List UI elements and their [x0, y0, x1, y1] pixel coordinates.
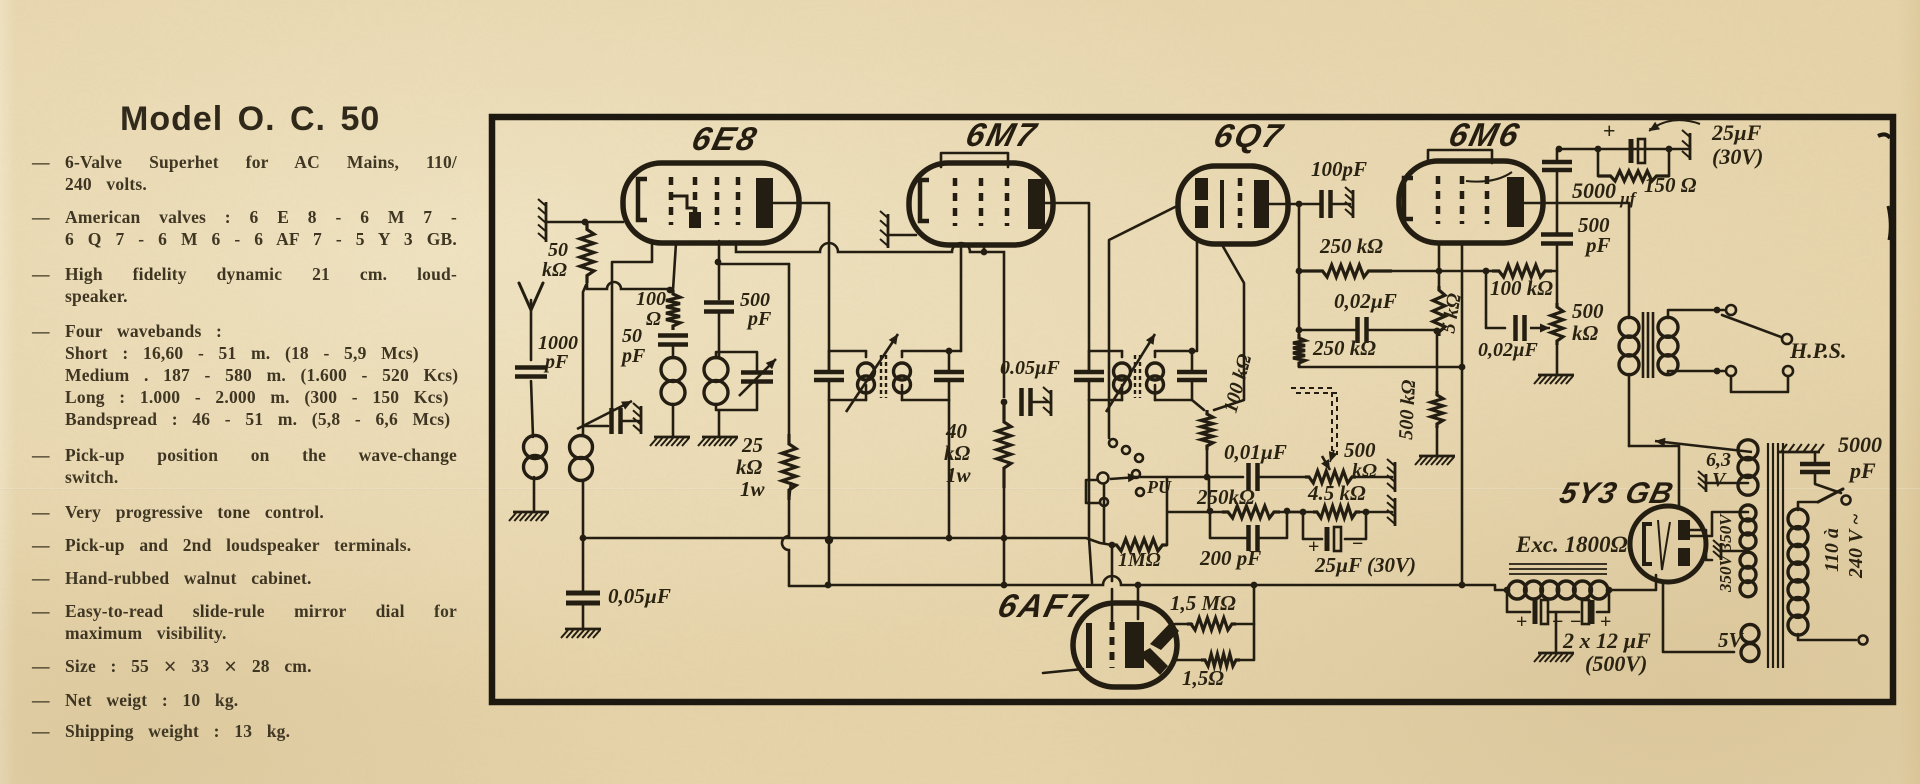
- mains switch: [1818, 489, 1843, 502]
- svg-text:0,01µF: 0,01µF: [1224, 440, 1287, 464]
- capacitor 0.01uF: [1249, 463, 1258, 491]
- wire 50k to tank: [583, 285, 586, 436]
- IF2 secondary capacitor: [1177, 372, 1207, 380]
- svg-text:pF: pF: [620, 345, 646, 367]
- wire 5k to 500k: [1436, 331, 1439, 391]
- electrolytic 25uF top: [1629, 139, 1634, 163]
- svg-text:6E8: 6E8: [688, 121, 762, 157]
- svg-text:6AF7: 6AF7: [994, 588, 1092, 624]
- wire 25k bottom hop to bus: [782, 482, 791, 586]
- wire bus to choke: [1495, 585, 1507, 590]
- node mb4: [1001, 582, 1008, 589]
- svg-text:5V: 5V: [1718, 628, 1745, 652]
- wire 5000 stem: [1814, 452, 1817, 461]
- node 250k h: [1296, 268, 1303, 275]
- capacitor 0.02uF m6: [1516, 315, 1525, 341]
- node avc3: [825, 536, 833, 544]
- switch frame: [1086, 480, 1099, 503]
- terminal HPS 2: [1782, 334, 1792, 344]
- chassis wall det: [1394, 498, 1397, 526]
- wire 500pF to coil2: [718, 311, 721, 358]
- wire IF2 left down to bus: [1089, 400, 1092, 583]
- wire 350 tap: [1721, 550, 1748, 553]
- chassis wall 100pF: [1352, 190, 1355, 218]
- node mb2: [1135, 582, 1142, 589]
- electrolytic C2 12uF: [1590, 600, 1595, 624]
- svg-text:kΩ: kΩ: [1572, 321, 1599, 345]
- wire 512 rail: [1168, 511, 1224, 514]
- resistor 250k v: [1293, 334, 1305, 367]
- choke core: [1509, 564, 1607, 574]
- wire 500k to gnd: [1436, 428, 1439, 455]
- resistor 40k 1W: [997, 402, 1011, 488]
- terminal HPS 3: [1726, 366, 1736, 376]
- wire IF1 right down to AVC: [948, 400, 951, 538]
- wire 6M7 anode to IF2: [1045, 203, 1089, 372]
- rectifier 5Y3GB: [1630, 506, 1706, 582]
- svg-text:100pF: 100pF: [1311, 157, 1367, 181]
- node heater-left: [582, 219, 589, 226]
- wire IF2 sec top to 6Q7: [1192, 242, 1197, 351]
- tone pot 500k: [1551, 303, 1563, 345]
- pentode tube 6M7: [909, 163, 1053, 245]
- ink mark right border a: [1878, 134, 1890, 138]
- svg-text:6M6: 6M6: [1445, 117, 1524, 153]
- svg-text:kΩ: kΩ: [542, 259, 567, 281]
- svg-text:5Y3 GB: 5Y3 GB: [1556, 476, 1677, 509]
- capacitor 0.05uF avc: [566, 593, 600, 603]
- wire 6M6 cath down: [1461, 244, 1464, 585]
- capacitor 0.02uF q7: [1358, 317, 1367, 343]
- wire 367 rail: [1299, 366, 1462, 369]
- filter choke: [1508, 581, 1526, 599]
- wire primary bottom: [1798, 634, 1856, 640]
- wire OT bottom to 5Y3: [1629, 446, 1679, 506]
- wire choke R to 5Y3: [1609, 575, 1656, 590]
- IF2 frame right: [1155, 350, 1192, 353]
- svg-text:1w: 1w: [946, 463, 972, 487]
- svg-text:5000: 5000: [1572, 178, 1616, 203]
- svg-text:4.5 kΩ: 4.5 kΩ: [1307, 481, 1366, 505]
- node avc4: [946, 535, 953, 542]
- node avc5: [1001, 535, 1008, 542]
- wire 0.02 left: [1299, 329, 1357, 332]
- resistor 150: [1598, 171, 1669, 181]
- wire osc tank top: [716, 352, 757, 372]
- top line: [1559, 148, 1690, 151]
- electrolytic C1 12uF: [1533, 600, 1538, 624]
- wire 40k to bus: [1003, 488, 1006, 585]
- wire 1.5 right: [1240, 624, 1254, 660]
- node avc1: [580, 535, 587, 542]
- wire 0.01 rail: [1134, 476, 1243, 479]
- switch contact 2: [1122, 446, 1130, 454]
- ground filter: [1538, 652, 1574, 655]
- output transformer primary: [1619, 317, 1639, 337]
- resistor 1M: [1112, 539, 1167, 551]
- node 02 tap: [1483, 268, 1490, 275]
- AVC bus: [583, 538, 1112, 545]
- svg-text:Ω: Ω: [646, 308, 661, 330]
- duo-diode-triode 6Q7: [1178, 166, 1288, 244]
- wire ant coil to ground: [533, 477, 536, 510]
- chassis wall trimmer: [640, 406, 643, 434]
- IF2 primary coil: [1114, 363, 1131, 380]
- wire caps mid gnd: [1555, 612, 1558, 652]
- wire OT sec top: [1668, 310, 1724, 318]
- capacitor 500pF m6: [1541, 235, 1573, 244]
- node cath bus: [1459, 582, 1466, 589]
- chassis wall 0.05uF: [1050, 390, 1053, 416]
- node q7 330: [1296, 327, 1303, 334]
- wire 6M6 grid down: [1438, 244, 1441, 286]
- node top3: [1666, 146, 1673, 153]
- 6M6 grid cap bracket: [1428, 150, 1492, 163]
- node 512a: [1207, 508, 1214, 515]
- 6M7 grid cap bracket: [941, 153, 1008, 167]
- winding 5V: [1741, 625, 1759, 643]
- svg-text:6,3: 6,3: [1706, 449, 1731, 471]
- resistor 250k coupling: [1299, 265, 1392, 277]
- node det: [1300, 509, 1307, 516]
- wire HPS jog: [1731, 376, 1788, 392]
- wire 100pF leads: [1299, 203, 1321, 206]
- svg-text:500: 500: [1344, 438, 1376, 462]
- chassis wall AF: [1394, 462, 1397, 492]
- switch contact 4: [1132, 470, 1140, 478]
- ceiling ground 5000pF: [1778, 451, 1820, 454]
- ground antenna coil: [513, 511, 549, 514]
- svg-text:0.05µF: 0.05µF: [1000, 357, 1061, 379]
- wire 0.02 right: [1367, 329, 1437, 332]
- node 1M junction: [1109, 542, 1116, 549]
- tuning indicator 6AF7: [1073, 603, 1177, 687]
- node IF2 sec top: [1189, 348, 1196, 355]
- wire 5Y3 filament down: [1663, 582, 1734, 652]
- wire grid3 6E8 down: [718, 241, 721, 299]
- node sec bottom: [1714, 368, 1721, 375]
- svg-text:kΩ: kΩ: [944, 441, 971, 465]
- resistor 250k det: [1222, 506, 1280, 518]
- svg-text:250kΩ: 250kΩ: [1196, 485, 1255, 509]
- wire 477 to 512: [1208, 477, 1211, 512]
- wire antenna cap to coil: [531, 381, 533, 437]
- switch contact 1: [1109, 439, 1117, 447]
- schematic frame border: [492, 117, 1893, 702]
- capacitor 100pF: [1322, 190, 1331, 218]
- svg-text:250 kΩ: 250 kΩ: [1312, 336, 1376, 360]
- wire HPS diag: [1722, 315, 1781, 337]
- svg-text:kΩ: kΩ: [736, 455, 763, 479]
- svg-text:500: 500: [1572, 299, 1604, 323]
- IF1 secondary coil: [894, 363, 911, 380]
- wire primary top: [1798, 502, 1818, 510]
- switch wiper arrow: [1110, 477, 1138, 479]
- terminal HPS 1: [1726, 305, 1736, 315]
- wire 6Q7 anode down: [1298, 204, 1301, 334]
- resistor 5k: [1433, 286, 1445, 336]
- wire IF1 left down to bus: [828, 400, 831, 585]
- svg-text:25: 25: [741, 433, 763, 457]
- AF pot 500k: [1305, 471, 1356, 483]
- wire 5000 to topline: [1556, 149, 1559, 162]
- ground avc: [565, 628, 601, 631]
- wire switch pole down: [1103, 484, 1106, 543]
- wire 6Q7 anode right: [1269, 203, 1299, 206]
- svg-text:V: V: [1712, 469, 1727, 491]
- loop 200pF: [1210, 512, 1248, 538]
- svg-text:0,05µF: 0,05µF: [608, 584, 671, 608]
- wire osc coil bottom to AVC bus: [582, 480, 585, 538]
- loop caps: [1507, 590, 1530, 612]
- resistor 1.5M: [1187, 618, 1236, 630]
- svg-text:kΩ: kΩ: [1352, 460, 1377, 482]
- svg-text:40: 40: [945, 419, 968, 443]
- wire trimmer left: [583, 425, 608, 428]
- chassis wall top-left: [545, 202, 548, 242]
- wire pot bottom: [1206, 450, 1209, 477]
- svg-text:1,5 MΩ: 1,5 MΩ: [1170, 591, 1236, 615]
- node 6M7 cathode: [1001, 399, 1008, 406]
- IF1 frame left: [829, 350, 866, 353]
- wire tone to gnd: [1556, 345, 1559, 374]
- wire grid1 lead: [673, 243, 676, 290]
- resistor 25k 1W: [782, 434, 796, 500]
- winding 6.3V: [1738, 440, 1758, 460]
- wire 0.01 to pot: [1258, 476, 1309, 479]
- wire 0.05uF to wall: [1031, 401, 1048, 404]
- capacitor 1000pF: [515, 368, 547, 377]
- wire osc tank to ground: [718, 410, 721, 436]
- wire coil1 to ground: [672, 404, 675, 436]
- switch contact 6: [1100, 498, 1108, 506]
- wire 50k bottom to grid node: [587, 282, 670, 289]
- transformer core: [1768, 443, 1783, 668]
- volume pot resistor 100k: [1201, 410, 1213, 450]
- svg-text:240 V ~: 240 V ~: [1845, 514, 1867, 579]
- wire 6.3 tap: [1706, 482, 1748, 485]
- node 477 left: [1204, 474, 1211, 481]
- ground 6.3V: [1705, 474, 1708, 492]
- wire 6Q7 grid kink: [1214, 243, 1244, 410]
- wire osc tank bottom: [716, 382, 757, 410]
- main bus: [828, 576, 1495, 585]
- node top1: [1556, 146, 1563, 153]
- chassis wall 25uF: [1689, 133, 1692, 160]
- svg-text:100 kΩ: 100 kΩ: [1490, 276, 1553, 300]
- capacitor 5000 top: [1542, 162, 1572, 170]
- node 6Q7 anode: [1296, 201, 1303, 208]
- antenna coil: [524, 436, 547, 459]
- capacitor 200pF: [1249, 525, 1258, 551]
- dashed feedback path: [1291, 388, 1332, 455]
- antenna stem: [530, 300, 533, 360]
- tuned coil 1: [661, 358, 685, 382]
- switch pole: [1098, 473, 1109, 484]
- svg-text:H.P.S.: H.P.S.: [1789, 338, 1846, 363]
- wire OT down: [1628, 203, 1631, 318]
- node grid1 top: [667, 287, 674, 294]
- wire 6Q7 grid to switch: [1109, 207, 1175, 438]
- 6M6 grid pointer: [1466, 172, 1512, 182]
- wire OT primary bottom: [1628, 374, 1631, 446]
- node choke R: [1606, 587, 1613, 594]
- resistor 100ohm: [666, 290, 680, 330]
- svg-text:110 à: 110 à: [1821, 528, 1843, 572]
- wire 6AF7 anode feed: [1137, 585, 1140, 619]
- svg-text:−: −: [1552, 611, 1563, 633]
- wire det jog: [1287, 511, 1313, 514]
- wire 02 tap down: [1486, 271, 1505, 328]
- node 512b: [1284, 508, 1291, 515]
- curved arrow 25uF: [1650, 120, 1700, 130]
- svg-text:0,02µF: 0,02µF: [1478, 339, 1539, 361]
- wire 50pF to coil: [672, 344, 675, 358]
- osc coil 2: [704, 358, 728, 382]
- resistor 50k: [580, 222, 594, 283]
- node IF1 sec top: [946, 348, 953, 355]
- svg-text:pF: pF: [746, 308, 772, 330]
- output transformer core: [1643, 312, 1653, 378]
- resistor 4.5k: [1313, 506, 1360, 518]
- node 0.02 right: [1434, 328, 1441, 335]
- svg-text:2 x 12 µF: 2 x 12 µF: [1562, 628, 1651, 653]
- svg-text:5000: 5000: [1838, 432, 1882, 457]
- svg-text:6M7: 6M7: [962, 117, 1041, 153]
- IF2 tuning arrow: [1106, 334, 1155, 412]
- node det2: [1363, 509, 1370, 516]
- heater arrow: [1655, 441, 1752, 452]
- svg-text:pF: pF: [1584, 233, 1611, 257]
- svg-text:150 Ω: 150 Ω: [1644, 173, 1697, 197]
- wire heater 6E8 left: [546, 221, 623, 224]
- wire IF2 sec bottom diag: [1192, 400, 1204, 410]
- switch contact 5: [1136, 488, 1144, 496]
- IF2 core: [1135, 355, 1140, 398]
- node osc grid: [715, 259, 722, 266]
- resistor 1.5ohm: [1201, 654, 1240, 666]
- resistor 500k v: [1431, 391, 1443, 428]
- winding 350V b: [1740, 552, 1756, 568]
- svg-text:+: +: [1516, 611, 1527, 633]
- svg-text:Exc. 1800Ω: Exc. 1800Ω: [1515, 532, 1628, 557]
- wire OT sec bottom: [1668, 371, 1724, 374]
- electrolytic 25uF det: [1325, 527, 1330, 551]
- terminal mains 2: [1859, 636, 1868, 645]
- winding 350V a: [1740, 505, 1756, 521]
- antenna: [519, 283, 543, 310]
- wire IF1 sec to 6M7 grid: [960, 247, 963, 351]
- IF1 core: [881, 355, 886, 398]
- IF1 primary coil: [858, 363, 875, 380]
- wire 6M7 cathode stub: [983, 247, 986, 252]
- svg-text:1w: 1w: [740, 477, 766, 501]
- triode-hexode tube 6E8: [623, 163, 799, 243]
- switch contact 3: [1135, 454, 1143, 462]
- IF1 tuning arrow: [846, 334, 898, 412]
- resistor 100k m6: [1492, 265, 1552, 277]
- cathode rail 6E8-6M7: [736, 243, 1004, 398]
- IF1 frame right: [902, 350, 949, 353]
- trimmer capacitor osc: [612, 408, 621, 434]
- svg-text:+: +: [1603, 118, 1616, 143]
- wire 6E8 anode to IF1: [773, 203, 829, 372]
- node mainbus 828: [825, 582, 832, 589]
- wire osc node to 25k: [719, 263, 789, 266]
- ink mark right border b: [1888, 206, 1890, 240]
- wire 100k right up: [1552, 271, 1557, 303]
- svg-text:250 kΩ: 250 kΩ: [1319, 234, 1383, 258]
- svg-text:1MΩ: 1MΩ: [1118, 549, 1161, 571]
- svg-text:0,02µF: 0,02µF: [1334, 289, 1397, 313]
- IF2 secondary coil: [1147, 363, 1164, 380]
- svg-text:50: 50: [548, 239, 568, 261]
- chassis wall 6M7: [887, 214, 890, 248]
- node 367: [1459, 364, 1466, 371]
- output transformer secondary: [1658, 317, 1678, 337]
- wire 4.5k right: [1360, 511, 1392, 514]
- IF1 secondary capacitor: [934, 372, 964, 380]
- capacitor 500pF osc: [704, 303, 734, 312]
- wire 6M7 heater: [888, 234, 916, 237]
- node grid 6M6: [1436, 268, 1443, 275]
- wire 5Y3 plates: [1690, 530, 1712, 560]
- node 6M7 cathode rail: [981, 249, 988, 256]
- wire 5000 to switch: [1815, 472, 1841, 493]
- node top2: [1595, 146, 1602, 153]
- wire eye grid: [1111, 545, 1114, 581]
- wire 6AF7 grid lead: [1177, 659, 1201, 662]
- ground coil1: [654, 436, 690, 439]
- wire trimmer right to wall: [621, 420, 641, 423]
- wire 6AF7 target: [1175, 623, 1192, 626]
- node mb3: [1251, 582, 1258, 589]
- wire 1M right up: [1166, 477, 1169, 545]
- ground osc tank: [702, 436, 738, 439]
- svg-text:1,5Ω: 1,5Ω: [1182, 666, 1224, 690]
- loop 150ohm: [1597, 149, 1600, 176]
- node choke L: [1504, 587, 1511, 594]
- ground 500k: [1419, 455, 1455, 458]
- svg-text:(500V): (500V): [1585, 651, 1647, 676]
- capacitor 0.05uF screen: [1022, 388, 1031, 416]
- loop 25uF det: [1303, 512, 1322, 539]
- svg-text:pF: pF: [1848, 458, 1876, 483]
- IF2 frame left: [1089, 350, 1122, 353]
- capacitor 50pF: [658, 336, 688, 345]
- capacitor 5000pF mains: [1800, 464, 1830, 472]
- output pentode 6M6: [1399, 161, 1543, 243]
- svg-text:25µF (30V): 25µF (30V): [1314, 553, 1416, 577]
- wire pot to wall: [1356, 476, 1392, 479]
- wire 250k to 6M6 grid: [1392, 270, 1492, 273]
- wire 6AF7 heater stub: [1043, 669, 1083, 673]
- svg-text:500 kΩ: 500 kΩ: [1395, 379, 1420, 440]
- IF2 primary capacitor: [1074, 372, 1104, 380]
- wire 6M6 anode up: [1524, 171, 1557, 203]
- svg-text:50: 50: [622, 325, 642, 347]
- svg-text:6Q7: 6Q7: [1210, 118, 1287, 154]
- primary winding: [1788, 509, 1808, 529]
- wire avc cap: [582, 538, 585, 593]
- ground tone: [1538, 374, 1574, 377]
- wire 350 to 5Y3: [1690, 512, 1748, 536]
- svg-text:200 pF: 200 pF: [1199, 546, 1261, 570]
- ground 350 center: [1720, 543, 1723, 560]
- wire 1.5M right: [1236, 585, 1254, 624]
- svg-text:100: 100: [636, 288, 666, 310]
- svg-text:25µF: 25µF: [1711, 120, 1762, 145]
